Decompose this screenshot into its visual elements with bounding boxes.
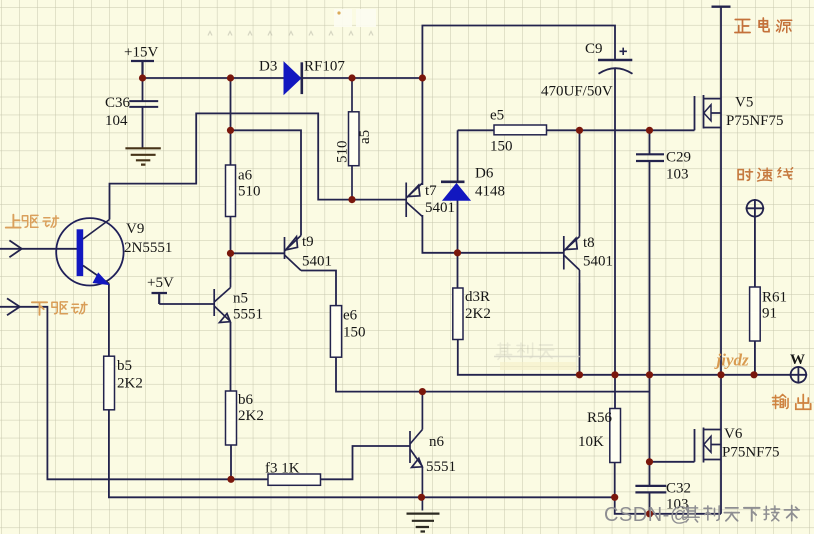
node b6 bottom bbox=[227, 476, 234, 483]
node R56 bottom bbox=[611, 494, 618, 501]
node R56 top bbox=[611, 371, 618, 378]
svg-text:+5V: +5V bbox=[147, 275, 174, 291]
resistor R56 10K bbox=[610, 409, 621, 463]
svg-text:RF107: RF107 bbox=[304, 59, 345, 75]
wire +5V to n5 base bbox=[159, 303, 214, 305]
svg-text:b5: b5 bbox=[117, 358, 132, 374]
wire a6 bottom to n5 collector bbox=[230, 217, 232, 280]
svg-text:470UF/50V: 470UF/50V bbox=[541, 84, 613, 100]
svg-text:jiydz: jiydz bbox=[714, 351, 749, 370]
terminal W output (crosshair) bbox=[790, 366, 808, 384]
wire t9 collector to e6 bbox=[301, 271, 336, 306]
svg-text:C36: C36 bbox=[105, 95, 131, 111]
wire R61 bottom to output rail bbox=[754, 341, 756, 375]
svg-text:510: 510 bbox=[335, 141, 351, 164]
resistor f3 1K bbox=[268, 474, 321, 485]
wire e6 bottom to lower mid rail bbox=[336, 357, 650, 391]
node a5 top bbox=[348, 74, 355, 81]
wire V9 base input bbox=[0, 248, 77, 250]
svg-text:b6: b6 bbox=[238, 392, 254, 408]
wire C29 bottom down to output rail bbox=[649, 161, 651, 375]
resistor a6 510 bbox=[226, 165, 236, 217]
svg-text:2K2: 2K2 bbox=[117, 376, 143, 392]
svg-text:P75NF75: P75NF75 bbox=[722, 445, 780, 461]
wire ground row step down to source rail bbox=[615, 497, 721, 514]
capacitor C32 bbox=[635, 486, 666, 493]
wire y=130 to t9 emitter bbox=[231, 130, 302, 235]
wire t7 collector to t8 base bbox=[422, 215, 563, 253]
node V6 gate tap bbox=[646, 458, 653, 465]
svg-text:5401: 5401 bbox=[425, 200, 455, 216]
node t9 emitter branch bbox=[227, 127, 234, 134]
svg-text:n5: n5 bbox=[233, 291, 248, 307]
svg-text:V9: V9 bbox=[126, 221, 144, 237]
wire a5 bottom lead bbox=[351, 166, 353, 200]
wire top bridge C9 bbox=[422, 26, 615, 79]
node t8 collector out bbox=[576, 371, 583, 378]
wire t8 collector down to output rail bbox=[579, 283, 581, 375]
node n5 collector bbox=[227, 250, 234, 257]
node V5 source out bbox=[717, 371, 724, 378]
wire e5 left to D6 cathode bbox=[457, 130, 459, 181]
node a5 bottom bbox=[348, 196, 355, 203]
wire R61 top from terminal bbox=[754, 217, 756, 287]
label 输出 (red) bbox=[772, 394, 810, 409]
mosfet V6 P75NF75 bbox=[695, 428, 722, 463]
svg-text:t9: t9 bbox=[302, 234, 314, 250]
resistor e5 150 bbox=[494, 125, 547, 135]
svg-text:d3R: d3R bbox=[465, 289, 490, 305]
transistor t8 5401 bbox=[564, 223, 580, 283]
svg-text:2N5551: 2N5551 bbox=[124, 240, 172, 256]
svg-text:5401: 5401 bbox=[583, 254, 613, 270]
faint watermark underline (center) bbox=[494, 356, 580, 358]
resistor R61 91 bbox=[750, 287, 761, 341]
wire C9 bottom long drop to output rail bbox=[614, 69, 616, 375]
resistor d3R 2K2 bbox=[453, 288, 463, 340]
wire R56 bottom to ground row bbox=[614, 463, 616, 498]
svg-text:V6: V6 bbox=[724, 426, 743, 442]
input arrow 上驱动 bbox=[9, 240, 21, 257]
faint watermark tick row (top) bbox=[208, 32, 373, 36]
mosfet V5 P75NF75 bbox=[695, 95, 722, 130]
node t8 emitter row bbox=[576, 127, 583, 134]
wire t8 emitter up to e5 row bbox=[579, 130, 581, 223]
wire V6 gate bbox=[650, 461, 695, 463]
svg-text:2K2: 2K2 bbox=[238, 408, 264, 424]
label 正电源 (red) bbox=[735, 18, 792, 32]
wire C36 top lead bbox=[142, 78, 144, 101]
wire V6 gate tap to C32 bbox=[649, 462, 651, 486]
wire vertical x=230.5 from +15V rail to a6 bbox=[230, 78, 232, 165]
diode D6 4148 bbox=[441, 182, 470, 201]
svg-text:P75NF75: P75NF75 bbox=[726, 113, 784, 129]
node n6 ground bbox=[418, 494, 425, 501]
node a6 top bbox=[227, 74, 234, 81]
wire V9 collector path to t7 base bbox=[110, 113, 407, 219]
svg-text:2K2: 2K2 bbox=[465, 306, 491, 322]
svg-text:D3: D3 bbox=[259, 59, 277, 75]
svg-text:150: 150 bbox=[343, 325, 366, 341]
svg-text:10K: 10K bbox=[578, 434, 604, 450]
svg-text:5551: 5551 bbox=[426, 459, 456, 475]
watermark 其利天下技术 bbox=[684, 506, 799, 522]
power symbol +15V bbox=[131, 61, 154, 78]
svg-text:150: 150 bbox=[490, 139, 513, 155]
svg-text:R56: R56 bbox=[587, 410, 613, 426]
svg-text:5401: 5401 bbox=[302, 254, 332, 270]
wire f3 to n6 base bbox=[321, 446, 411, 479]
svg-text:103: 103 bbox=[666, 167, 689, 183]
node t7 emitter rail bbox=[419, 74, 426, 81]
svg-text:+15V: +15V bbox=[124, 45, 158, 61]
transistor n6 5551 bbox=[410, 392, 422, 511]
svg-text:104: 104 bbox=[105, 113, 128, 129]
svg-text:510: 510 bbox=[238, 184, 261, 200]
svg-text:CSDN-@: CSDN-@ bbox=[604, 504, 691, 526]
wire main MOSFET rail bbox=[720, 7, 722, 514]
wire b6 bottom to lower input rail bbox=[230, 445, 232, 479]
node C32 bottom bbox=[646, 510, 653, 517]
wire b5 bottom to ground rail y=497.3 bbox=[109, 410, 615, 498]
power symbol +5V bbox=[152, 293, 168, 304]
label 下驱动 (orange) bbox=[32, 302, 87, 315]
wire V9 emitter down to b5 bbox=[108, 283, 110, 356]
wire e5 row from D6 corner to V5 gate bbox=[458, 129, 695, 131]
label 时速线 (red) bbox=[738, 168, 793, 181]
node C29/C32 rail out bbox=[646, 371, 653, 378]
node D6 anode bbox=[454, 249, 461, 256]
svg-text:e6: e6 bbox=[343, 308, 358, 324]
wire R56 top lead bbox=[614, 375, 616, 409]
wire D6 anode down to t8 base row bbox=[457, 200, 459, 253]
svg-text:t7: t7 bbox=[425, 183, 437, 199]
capacitor C9 (polarized) bbox=[598, 48, 633, 74]
wire 下驱动 input bbox=[0, 307, 268, 480]
svg-text:a5: a5 bbox=[357, 130, 373, 144]
wire d3R bottom to output rail y=374.8 bbox=[458, 340, 791, 375]
transistor V9 2N5551 bbox=[56, 218, 123, 285]
svg-text:f3 1K: f3 1K bbox=[265, 461, 300, 477]
svg-text:e5: e5 bbox=[490, 108, 504, 124]
node n6 collector bbox=[419, 388, 426, 395]
node +15V/C36 bbox=[139, 74, 146, 81]
svg-text:V5: V5 bbox=[735, 95, 753, 111]
transistor t9 5401 bbox=[285, 236, 302, 271]
diode D3 RF107 bbox=[284, 62, 302, 94]
svg-text:D6: D6 bbox=[475, 166, 494, 182]
svg-text:n6: n6 bbox=[429, 434, 445, 450]
capacitor C36 bbox=[129, 101, 158, 107]
svg-text:C29: C29 bbox=[666, 150, 691, 166]
wire t9 base bbox=[231, 252, 285, 254]
resistor a5 510 bbox=[349, 112, 360, 166]
node C29 top bbox=[646, 127, 653, 134]
faint watermark fragment center bbox=[496, 343, 553, 359]
svg-text:91: 91 bbox=[762, 306, 777, 322]
wire C36 bottom lead to ground bbox=[142, 107, 144, 148]
svg-text:C32: C32 bbox=[666, 481, 691, 497]
terminal 时速线 (crosshair) bbox=[746, 199, 765, 218]
capacitor C29 bbox=[636, 154, 664, 161]
wire d3R top lead bbox=[457, 253, 459, 288]
svg-text:a6: a6 bbox=[238, 168, 253, 184]
svg-text:W: W bbox=[790, 352, 805, 368]
pale watermark boxes (top) bbox=[334, 9, 376, 27]
label 上驱动 (orange) bbox=[6, 215, 59, 228]
ground (n6) bbox=[407, 514, 440, 532]
svg-text:C9: C9 bbox=[585, 41, 603, 57]
svg-text:5551: 5551 bbox=[233, 307, 263, 323]
input arrow 下驱动 bbox=[7, 298, 20, 315]
node R61 bottom bbox=[750, 371, 757, 378]
resistor e6 150 bbox=[330, 306, 341, 358]
pale watermark smudge (center) bbox=[500, 362, 576, 370]
wire a5 top lead bbox=[351, 78, 353, 112]
svg-text:t8: t8 bbox=[583, 235, 595, 251]
transistor t7 5401 bbox=[406, 183, 422, 218]
wire +15V rail y=78 bbox=[143, 77, 423, 79]
wire C29 top lead bbox=[649, 130, 651, 154]
wire t7 emitter from +15V rail bbox=[421, 78, 423, 185]
transistor n5 5551 bbox=[214, 279, 230, 323]
svg-text:4148: 4148 bbox=[475, 184, 505, 200]
ground (C36) bbox=[125, 148, 160, 164]
resistor b5 2K2 bbox=[104, 356, 115, 410]
wire n5 emitter down to b6 bbox=[230, 322, 232, 391]
resistor b6 2K2 bbox=[226, 391, 237, 445]
svg-text:R61: R61 bbox=[762, 290, 787, 306]
wire C32 bottom lead bbox=[649, 493, 651, 514]
power bar 正电源 bbox=[712, 5, 731, 7]
wire output rail to V6 gate tap bbox=[649, 375, 651, 462]
